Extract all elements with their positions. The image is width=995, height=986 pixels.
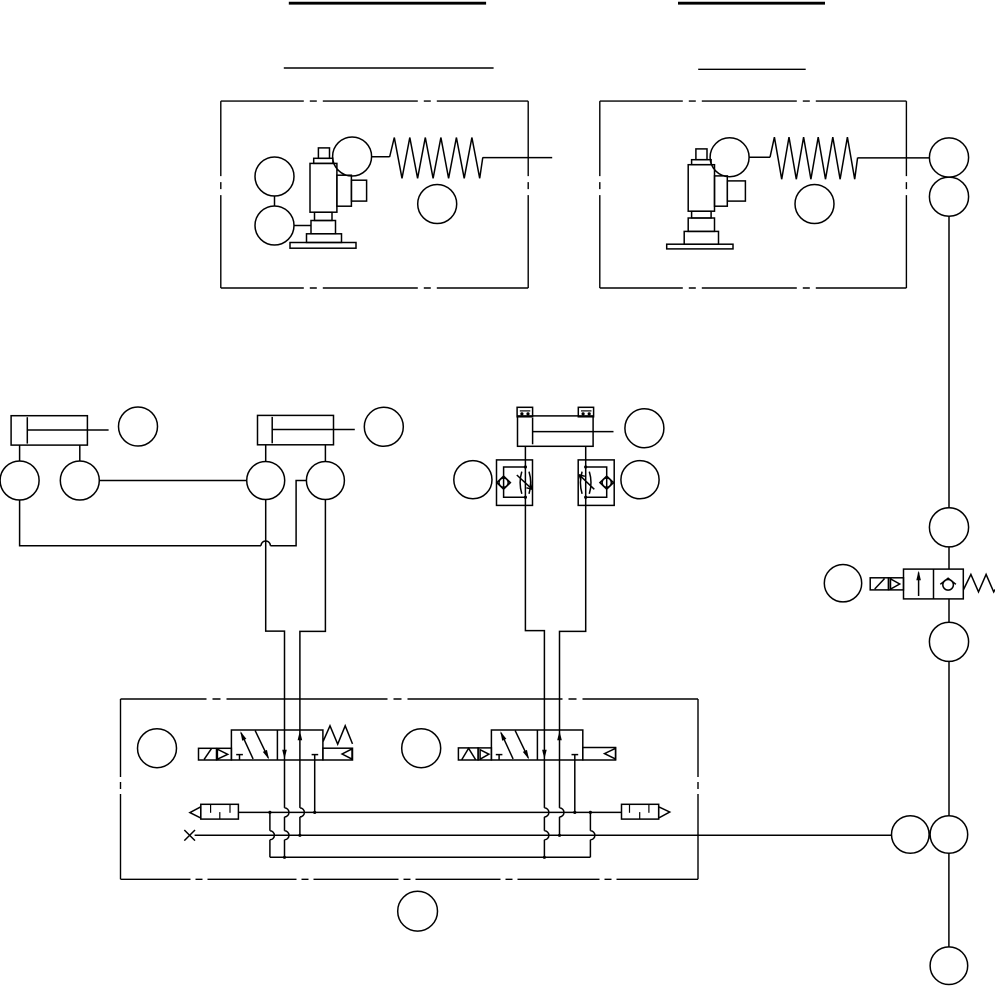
flow control FC1 check valve (497, 476, 511, 489)
wire FC2 down to valve V2 and manifold (560, 505, 586, 835)
wire V1 exhaust port down (314, 760, 316, 812)
balloon C8 (930, 947, 968, 985)
wire CY3 port lines (525, 446, 585, 460)
wire manifold right riser (590, 812, 595, 857)
balloon C6 (892, 816, 930, 854)
wire manifold line 2 (195, 834, 892, 836)
balloon E3 (398, 891, 438, 931)
regulator side blocks (715, 176, 746, 206)
valve V1 blocked port T2 (312, 755, 319, 760)
spring V3 (963, 574, 995, 592)
spring S1 (390, 138, 483, 179)
cylinder CY3 (518, 416, 614, 446)
valve V2 straight arrow down (542, 750, 547, 760)
pilot V2 right (583, 748, 616, 761)
flow control FC2 throttle (580, 472, 591, 494)
title underline T2 (678, 2, 825, 5)
shutoff valve check ball (940, 578, 956, 590)
wire FC1 main line (524, 460, 526, 506)
balloon C4 (824, 565, 861, 602)
valve V2 blocked port T4 (572, 755, 579, 760)
valve V1 cross arrow down (255, 731, 269, 760)
solenoid V1 (199, 748, 217, 760)
port balloon P1 (0, 461, 39, 500)
flow control FC1 adjust arrow (517, 475, 533, 489)
auto-switch SW2 (578, 407, 593, 417)
port balloon P2 (60, 461, 99, 500)
muffler M1 (190, 804, 239, 819)
valve V2 straight arrow up (557, 731, 562, 741)
wire P3 down to valve V1 and manifold (266, 500, 289, 858)
wire CY1 port lines (20, 445, 80, 461)
flow control FC2 bypass loop (586, 467, 607, 497)
enclosure box 2 (dash-dot) (600, 101, 907, 288)
solenoid V2 (458, 748, 478, 760)
wire CY2 port lines (266, 445, 326, 462)
junction dots FC1 (524, 465, 527, 468)
enclosure box 3 (dash-dot) (121, 699, 699, 879)
wire V2 exhaust port down (574, 760, 576, 812)
spring V1 (323, 726, 352, 744)
wire spring 2 lead-in (749, 156, 770, 158)
wire P1 down and across (with jump) (20, 481, 307, 546)
flow control FC2 adjust arrow (579, 475, 594, 490)
wire manifold left drop (270, 812, 275, 857)
plug X (184, 830, 195, 841)
regulator side blocks (337, 175, 367, 206)
wire below shutoff valve (948, 599, 950, 622)
wire right column upper (948, 216, 950, 507)
port balloon P3 (247, 462, 285, 500)
shutoff valve flow arrow (916, 571, 921, 596)
flow control FC1 box (497, 460, 533, 506)
enclosure box 1 (dash-dot) (221, 101, 528, 288)
valve V2 blocked port T3 (496, 755, 503, 760)
shutoff valve V3 body (904, 569, 964, 599)
cylinder CY1 (11, 416, 109, 445)
wire to bottom balloon (948, 853, 950, 947)
wire balloon A2 to regulator (294, 225, 311, 227)
flow control FC1 throttle (520, 472, 531, 494)
wire to shutoff valve (948, 547, 950, 569)
valve V2 cross arrow up (500, 731, 513, 759)
auto-switch SW1 (517, 407, 533, 417)
wire manifold line 3 (270, 856, 591, 858)
valve V1 body (231, 730, 323, 760)
balloon D5 (621, 461, 659, 499)
balloon D1 (119, 407, 158, 446)
balloon D4 (454, 461, 492, 499)
wire regulator 2 output (858, 157, 930, 159)
balloon E1 (138, 729, 177, 768)
valve V1 blocked port T1 (236, 755, 243, 760)
spring S2 (770, 137, 858, 179)
valve V1 straight arrow down (282, 750, 287, 760)
balloon C7 (930, 816, 968, 854)
valve V1 cross arrow up (240, 731, 253, 759)
wire FC2 main line (585, 460, 587, 506)
valve V2 cross arrow down (515, 731, 529, 760)
pilot V1 (217, 748, 232, 760)
junction dots FC2 (584, 465, 587, 468)
regulator body (688, 149, 714, 211)
wire P2 to P3 (99, 480, 246, 482)
wire spring lead-in (372, 156, 390, 158)
balloon C5 (929, 622, 968, 661)
regulator base (667, 211, 733, 249)
regulator base (290, 212, 356, 248)
valve V1 straight arrow up (298, 731, 303, 741)
flow control FC2 check valve (600, 476, 614, 489)
flow control FC2 box (578, 460, 614, 506)
balloon A1 (255, 157, 294, 196)
port balloon P4 (306, 462, 344, 500)
wire right column lower (948, 661, 950, 815)
pilot V1 right (323, 748, 353, 760)
valve V2 body (491, 730, 582, 760)
subtitle underline T4 (698, 68, 806, 70)
cylinder CY2 (258, 415, 355, 444)
balloon D3 (625, 409, 664, 448)
title underline T1 (289, 2, 486, 5)
subtitle underline T3 (284, 67, 494, 69)
balloon B2 (795, 185, 834, 224)
wire regulator 1 output (483, 157, 552, 159)
pilot V3 (889, 578, 904, 590)
balloon C3 (929, 508, 968, 547)
flow control FC1 bypass loop (504, 467, 526, 497)
muffler M2 (622, 804, 670, 819)
balloon C2 (929, 177, 968, 216)
wire P4 down to valve V1 and manifold (300, 500, 326, 836)
wire FC1 down to valve V2 and manifold (525, 505, 549, 857)
balloon A4 (418, 185, 457, 224)
balloon A2 (255, 206, 294, 245)
balloon D2 (364, 407, 403, 446)
balloon C1 (929, 138, 968, 177)
junction dots manifold (268, 811, 592, 859)
wire A1-A2 (274, 196, 276, 206)
regulator body (310, 148, 337, 212)
pilot V2 (478, 748, 491, 760)
balloon B1 (710, 138, 749, 177)
balloon E2 (402, 729, 441, 768)
wire manifold line 1 (238, 811, 621, 813)
balloon A3 (333, 137, 372, 176)
solenoid V3 (870, 578, 888, 590)
